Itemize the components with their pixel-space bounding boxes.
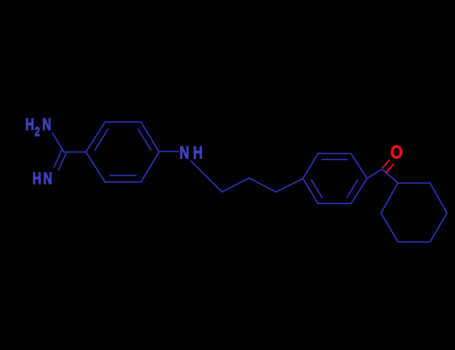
wire: bond ring2 to carbonyl C xyxy=(367,169,382,179)
svg-text:H: H xyxy=(32,170,41,188)
svg-text:N: N xyxy=(42,116,51,134)
wire: bond carbonyl C to ring3 xyxy=(382,169,398,183)
wire: bond ring1 to NH xyxy=(159,151,178,153)
svg-text:N: N xyxy=(180,144,190,163)
wire: bond H2N to amidine C xyxy=(53,133,65,152)
wire: bond amidine C to ring1 xyxy=(64,151,86,153)
ring2 inner double bond lower-left edge xyxy=(312,180,323,198)
label H2N xyxy=(25,116,51,139)
double bond C=O red xyxy=(383,160,390,168)
svg-text:2: 2 xyxy=(35,126,40,140)
svg-text:H: H xyxy=(193,144,203,163)
wire: chain C3 to ring2 xyxy=(276,179,303,193)
label NH xyxy=(180,144,203,163)
wire: bond NH to chain C1 xyxy=(191,161,222,192)
wire: chain C1-C2 xyxy=(222,178,249,192)
ring2 inner double bond lower-right edge xyxy=(347,180,358,198)
ring1 benzene outline xyxy=(86,122,159,182)
ring2 inner double bond top edge xyxy=(322,159,347,161)
svg-text:N: N xyxy=(43,170,52,188)
svg-text:H: H xyxy=(25,116,34,134)
ring1 inner double bond upper-left edge xyxy=(95,129,108,150)
ring2 benzene outline xyxy=(303,154,367,204)
ring1 inner double bond bottom edge xyxy=(110,175,136,177)
ring3 cyclohexane outline xyxy=(381,183,447,242)
wire: chain C2-C3 xyxy=(249,178,276,192)
wire: double bond amidine C=NH xyxy=(54,151,62,168)
label HN xyxy=(32,170,52,188)
svg-text:O: O xyxy=(390,142,403,163)
ring1 inner double bond upper-right edge xyxy=(138,129,151,150)
